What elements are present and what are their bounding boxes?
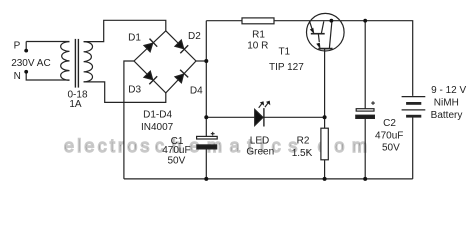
svg-text:1.5K: 1.5K (292, 148, 313, 159)
svg-text:D4: D4 (190, 85, 203, 96)
svg-text:IN4007: IN4007 (141, 122, 174, 133)
svg-text:T1: T1 (278, 47, 290, 58)
svg-text:470uF: 470uF (375, 130, 403, 141)
svg-text:10 R: 10 R (247, 41, 268, 52)
svg-text:D1: D1 (128, 33, 141, 44)
svg-text:50V: 50V (382, 142, 400, 153)
svg-text:C2: C2 (383, 118, 396, 129)
svg-text:1A: 1A (69, 99, 82, 110)
svg-text:D3: D3 (128, 85, 141, 96)
svg-text:N: N (14, 71, 21, 82)
svg-text:Battery: Battery (431, 110, 463, 121)
svg-text:470uF: 470uF (162, 145, 190, 156)
svg-text:TIP 127: TIP 127 (269, 62, 304, 73)
svg-text:NiMH: NiMH (434, 98, 459, 109)
svg-text:Green: Green (246, 147, 274, 158)
svg-text:P: P (14, 41, 21, 52)
svg-text:LED: LED (250, 136, 269, 147)
svg-text:230V AC: 230V AC (11, 58, 50, 69)
svg-text:50V: 50V (168, 156, 186, 167)
svg-text:R2: R2 (297, 136, 310, 147)
svg-text:R1: R1 (252, 29, 265, 40)
svg-text:D1-D4: D1-D4 (143, 110, 172, 121)
svg-text:electros: electros (64, 136, 153, 156)
svg-text:D2: D2 (188, 31, 201, 42)
svg-text:9 - 12 V: 9 - 12 V (431, 85, 466, 96)
